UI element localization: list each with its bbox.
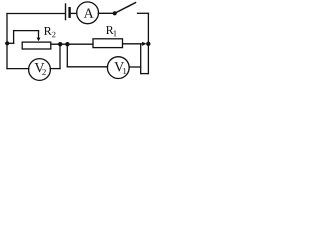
label R1 subscript 1 [114, 30, 117, 36]
wire rheostat riser [13, 31, 15, 44]
rheostat slider arrowhead [37, 38, 41, 42]
wire bottom-right horizontal [141, 73, 149, 75]
label V2 subscript 2 [42, 69, 46, 75]
junction dot V2 tap [58, 42, 62, 46]
label A ammeter [84, 9, 94, 18]
ammeter U A circle [77, 2, 99, 24]
wire right vertical [147, 13, 149, 73]
junction dot right node [146, 42, 150, 46]
junction dot V1 tap [65, 42, 69, 46]
wire ammeter to switch [98, 12, 114, 14]
junction dot switch pivot [113, 11, 117, 15]
wire V2 right lead [50, 68, 60, 70]
resistor R2 body [22, 42, 51, 49]
wire V1 right branch vertical [140, 44, 142, 73]
wire rheostat top horizontal [14, 30, 39, 32]
label V1 subscript 1 [123, 68, 126, 74]
wire V2 to node vertical [59, 44, 61, 68]
wire switch to top-right corner [138, 12, 149, 14]
wire rheostat slider down-stroke [38, 31, 40, 38]
switch blade [115, 3, 136, 14]
wire left vertical [6, 14, 8, 69]
wire left junction stub [7, 42, 14, 44]
label R2 letter R [44, 27, 52, 35]
label R1 letter R [106, 26, 114, 34]
wire V1 right lead [129, 66, 141, 68]
voltmeter V1 circle [107, 57, 129, 79]
junction dot left node [5, 41, 9, 45]
wire R2 to R1 middle [51, 43, 93, 45]
resistor R1 body [93, 39, 123, 48]
wire V1 left lead [67, 66, 107, 68]
current arrowhead into right junction [142, 42, 147, 46]
wire battery to ammeter [71, 12, 77, 14]
wire node to V1 lead vertical [66, 44, 68, 67]
battery cell short thick plate [68, 8, 70, 17]
wire R1 to right junction [123, 43, 144, 45]
wire bottom-left to V2 [7, 68, 29, 70]
voltmeter V2 circle [29, 59, 51, 81]
label R2 subscript 2 [52, 32, 55, 37]
label V1 letter V [114, 62, 124, 71]
wire top-left horizontal [7, 13, 65, 15]
battery cell long plate [65, 4, 67, 20]
label V2 letter V [35, 63, 45, 72]
